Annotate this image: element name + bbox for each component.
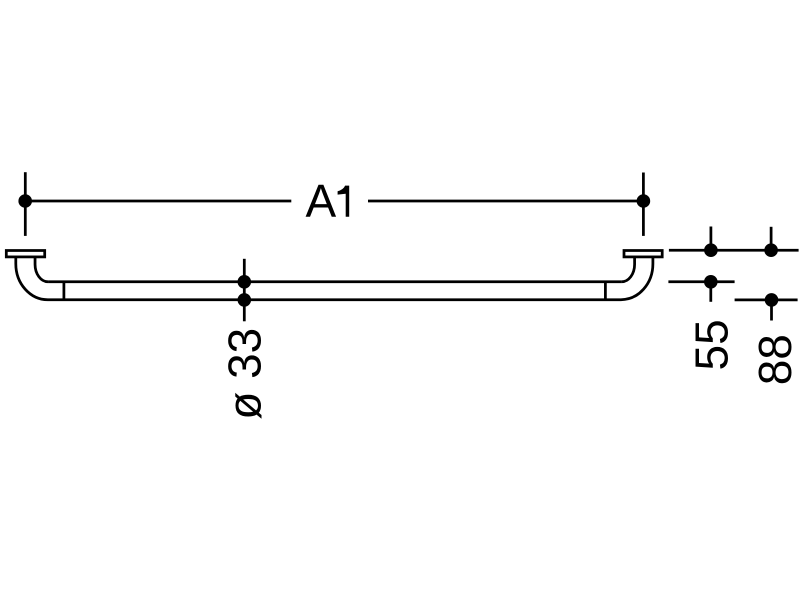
tube top line <box>48 280 622 283</box>
svg-text:ø 33: ø 33 <box>219 328 271 420</box>
weld joint line left <box>63 282 66 300</box>
wall reference line right <box>669 249 799 252</box>
weld joint line right <box>604 282 607 300</box>
right wall flange <box>624 251 662 257</box>
dot dim 88 at wall line <box>764 243 778 257</box>
reference line at tube bottom level <box>735 299 798 302</box>
reference line at tube top level <box>668 280 734 283</box>
dot right end of A1 <box>637 194 651 208</box>
dot on tube bottom line <box>238 293 252 307</box>
tick below tube-top dot of dim 55 <box>709 282 712 302</box>
extension tick left end of A1 <box>24 172 27 236</box>
dot dim 55 at tube top line <box>704 275 718 289</box>
tick above wall dot of dim 55 <box>710 227 713 251</box>
tube outer contour (left post, bottom, right post) <box>16 258 653 300</box>
tube inner contour left elbow <box>35 258 48 282</box>
svg-text:A: A <box>306 175 337 227</box>
svg-text:55: 55 <box>685 319 737 370</box>
label A1 digit 1 <box>338 186 350 217</box>
diameter callout tick through tube <box>243 259 246 322</box>
dimension line A1 (left segment) <box>25 200 291 203</box>
extension tick right end of A1 <box>642 173 645 236</box>
svg-text:88: 88 <box>749 334 801 385</box>
tube inner contour right elbow <box>622 258 635 282</box>
dot left end of A1 <box>18 194 32 208</box>
dot dim 55 at wall line <box>704 243 718 257</box>
dot dim 88 at tube bottom line <box>765 293 779 307</box>
left wall flange <box>6 251 44 257</box>
dimension line A1 (right segment) <box>368 200 643 203</box>
dot on tube top line <box>238 275 252 289</box>
tick above wall dot of dim 88 <box>770 227 773 250</box>
tick below tube-bottom dot of dim 88 <box>770 300 773 321</box>
